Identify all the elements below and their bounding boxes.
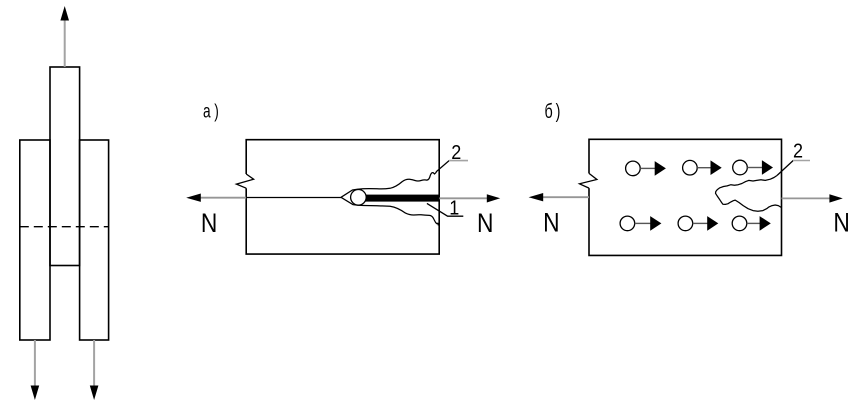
svg-text:N: N <box>543 209 559 238</box>
svg-text:1: 1 <box>449 198 459 220</box>
svg-text:N: N <box>201 209 217 238</box>
svg-text:N: N <box>833 209 849 238</box>
svg-text:2: 2 <box>793 141 803 163</box>
svg-text:a): a) <box>203 100 222 122</box>
svg-text:N: N <box>477 210 493 239</box>
svg-text:2: 2 <box>451 142 461 164</box>
svg-text:б): б) <box>545 99 564 122</box>
